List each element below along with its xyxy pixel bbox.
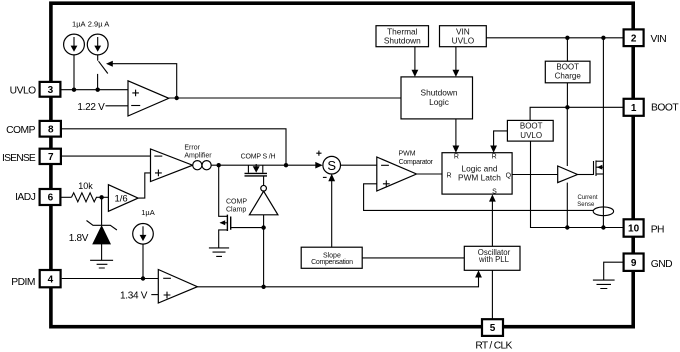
svg-text:1.22 V: 1.22 V [77,102,105,113]
svg-text:ISENSE: ISENSE [2,153,36,164]
svg-text:R: R [446,172,451,179]
svg-text:BOOT: BOOT [556,63,579,72]
svg-text:1: 1 [631,103,637,114]
svg-text:BOOT: BOOT [651,102,679,113]
svg-text:BOOT: BOOT [520,121,543,130]
svg-text:with PLL: with PLL [478,255,510,264]
svg-text:Current: Current [577,195,597,201]
svg-text:S: S [492,189,497,196]
svg-text:Amplifier: Amplifier [184,153,212,160]
svg-text:Compensation: Compensation [311,259,353,266]
svg-text:8: 8 [48,124,54,135]
svg-text:UVLO: UVLO [452,36,475,46]
svg-text:PWM: PWM [398,151,415,158]
svg-text:7: 7 [48,152,54,163]
svg-text:PH: PH [651,224,664,235]
svg-text:PDIM: PDIM [11,277,35,288]
svg-text:4: 4 [48,274,54,285]
svg-text:Shutdown: Shutdown [421,87,458,97]
svg-text:COMP: COMP [6,125,36,136]
svg-text:R: R [492,154,497,161]
svg-text:S: S [327,158,336,173]
svg-text:PWM Latch: PWM Latch [458,173,501,183]
svg-text:IADJ: IADJ [15,192,36,203]
svg-text:10: 10 [628,224,640,235]
svg-text:Clamp: Clamp [226,207,246,214]
svg-text:1µA: 1µA [72,19,86,28]
svg-text:5: 5 [490,323,496,334]
svg-text:Error: Error [184,145,200,152]
svg-text:GND: GND [651,259,672,270]
svg-text:VIN: VIN [651,34,667,45]
svg-text:RT / CLK: RT / CLK [475,341,512,352]
svg-text:Comparator: Comparator [399,159,434,166]
svg-text:Logic: Logic [429,97,449,107]
svg-text:2: 2 [631,34,637,45]
svg-text:COMP: COMP [226,199,247,206]
svg-text:1/6: 1/6 [115,194,128,205]
svg-text:10k: 10k [78,181,93,191]
svg-text:6: 6 [48,193,54,204]
svg-text:UVLO: UVLO [10,85,37,96]
svg-text:2.9µ A: 2.9µ A [88,19,109,28]
svg-text:9: 9 [631,258,637,269]
svg-text:COMP S /H: COMP S /H [241,154,276,161]
svg-text:Sense: Sense [577,202,595,208]
svg-text:1µA: 1µA [141,208,155,217]
svg-text:Shutdown: Shutdown [384,36,421,46]
svg-text:1.34 V: 1.34 V [120,291,148,302]
svg-text:3: 3 [48,85,54,96]
svg-text:R: R [454,154,459,161]
svg-text:Q: Q [506,172,512,179]
svg-text:1.8V: 1.8V [69,233,89,244]
svg-text:UVLO: UVLO [520,131,542,140]
svg-text:Charge: Charge [555,71,582,80]
